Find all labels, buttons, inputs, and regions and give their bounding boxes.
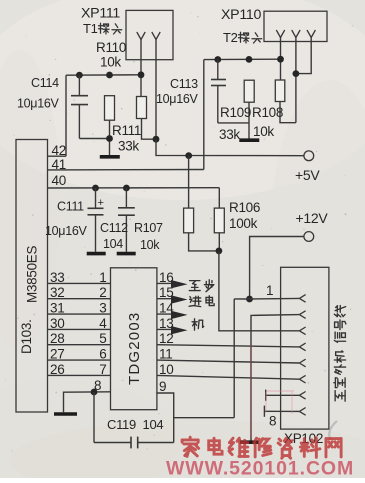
node T1 bus / C114 [76, 72, 83, 79]
wire R107 top to +5V [188, 156, 190, 209]
svg-text:6: 6 [99, 347, 106, 362]
wire pin 41 from IC [48, 169, 204, 171]
svg-text:C113: C113 [170, 77, 198, 91]
svg-text:27: 27 [50, 347, 64, 362]
connector XP110 box [264, 11, 327, 41]
wire divider junction down to XP102 pin3 [219, 251, 300, 331]
ground (C112) [117, 252, 136, 256]
svg-text:33k: 33k [219, 127, 240, 142]
svg-text:WWW.520101.COM: WWW.520101.COM [166, 458, 354, 479]
watermark pink marks [266, 390, 294, 414]
wire XP102 pin2 [251, 315, 299, 441]
node pin40 / C112 [123, 185, 130, 192]
wire R108 bottom to pin2 line [280, 102, 296, 123]
watermark text 家电维修资料网 [182, 437, 341, 458]
node +5V / R107 [185, 152, 192, 159]
svg-text:41: 41 [52, 157, 66, 172]
wire +12V to XP102 pin1 [250, 237, 304, 300]
svg-text:8: 8 [269, 414, 276, 429]
svg-text:9: 9 [159, 379, 166, 394]
wire IC pin 30 to TDG2003 pin 4 [48, 328, 111, 330]
wire TDG2003 pin 15 output [157, 298, 173, 300]
wire IC pin 33 to TDG2003 pin 1 [48, 282, 111, 284]
connector XP102 pin 4 fork [299, 343, 305, 351]
arrow to stepper motor (pin 13) [171, 326, 188, 334]
tick XP102 pin8 [263, 406, 265, 417]
svg-text:R106: R106 [229, 200, 260, 215]
wire TDG2003 pin 13 output [157, 328, 173, 330]
svg-text:5: 5 [99, 331, 106, 346]
wire TDG2003 pin 9 down [157, 393, 174, 443]
svg-text:C114: C114 [31, 76, 59, 90]
wire R107 bottom to junction [189, 233, 219, 251]
svg-text:11: 11 [159, 347, 172, 362]
ground (TDG2003 pin 8) [54, 412, 77, 416]
svg-text:C111: C111 [57, 200, 84, 214]
svg-text:40: 40 [52, 173, 66, 188]
wire T1 bus corner down to pin 42 [65, 75, 67, 156]
wire XP102 pin8 stub [264, 410, 299, 412]
connector XP102 pin 3 fork [299, 327, 305, 335]
svg-text:100k: 100k [229, 216, 258, 231]
svg-text:T1: T1 [83, 21, 98, 36]
IC TDG2003 box [111, 268, 157, 410]
wire XP111 pin2 down to +5V corner [155, 40, 157, 140]
svg-text:104: 104 [103, 237, 123, 251]
node T2 bus / R109 [246, 56, 253, 63]
resistor R110 [137, 97, 147, 119]
wire +5V rail [156, 139, 304, 156]
svg-text:42: 42 [52, 143, 66, 158]
arrow to stepper motor (pin 16) [171, 280, 188, 288]
node T1 bus / R111 [106, 72, 113, 79]
wire XP111 pin1 down to R110 top [140, 40, 142, 98]
svg-text:4: 4 [99, 316, 107, 331]
svg-text:2: 2 [99, 285, 106, 300]
node R111 bottom / C114 [106, 135, 113, 142]
tick XP102 pin7 [265, 390, 267, 401]
wire TDG2003 pin 14 output [157, 313, 173, 315]
svg-text:10k: 10k [100, 55, 121, 70]
svg-text:+: + [98, 197, 104, 209]
arrow to stepper motor (pin 14) [171, 311, 188, 319]
node T2 bus / C113 [214, 56, 221, 63]
wire pin 40 from IC to R106 [48, 187, 220, 189]
op-amp/MCU IC D103 M3850ES box [16, 140, 48, 413]
svg-text:R107: R107 [134, 221, 163, 235]
wire R106 bottom [218, 233, 220, 251]
node T1 bus / R110 pin1 [138, 71, 145, 78]
svg-text:3: 3 [99, 301, 106, 316]
connector XP111 pin 1 fork [137, 32, 145, 40]
capacitor C111 (electrolytic) [88, 188, 104, 252]
svg-text:10μ16V: 10μ16V [156, 92, 199, 106]
svg-text:30: 30 [50, 316, 64, 331]
resistor R111 [105, 96, 115, 121]
wire R111 bottom to ground [109, 120, 111, 155]
resistor R107 [184, 208, 194, 233]
connector XP102 pin 6 fork [299, 375, 305, 383]
svg-text:28: 28 [50, 331, 64, 346]
wire TDG2003 pin 12 to XP102 pin 4 [157, 345, 300, 347]
svg-text:32: 32 [50, 285, 64, 300]
wire IC pin 27 to TDG2003 pin 6 [48, 359, 111, 361]
wire R106 top to pin40 [218, 188, 220, 208]
wire IC pin 26 to TDG2003 pin 7 [48, 374, 111, 376]
wire XP110 pin3 L to pin2 [296, 38, 311, 74]
wire XP102 pin1 [234, 297, 299, 300]
svg-text:10μ16V: 10μ16V [45, 224, 88, 238]
node R106/R107 bottoms [216, 248, 223, 255]
svg-text:33: 33 [50, 270, 64, 285]
capacitor C112 [118, 188, 135, 252]
wire TDG2003 pin 8 to ground [64, 392, 111, 413]
connector XP111 box [126, 10, 173, 59]
connector XP102 pin 7 fork [299, 392, 305, 400]
resistor R106 [214, 208, 224, 233]
wire T2 bus [204, 58, 281, 60]
svg-text:31: 31 [50, 301, 64, 316]
connector XP102 box [281, 267, 329, 429]
label to outdoor unit signal line (至室外机 信号线, rotated) [334, 306, 346, 402]
connector XP110 pin 3 fork [307, 30, 315, 38]
svg-text:R111: R111 [112, 123, 141, 138]
wire TDG2003 pin 16 output [157, 282, 173, 284]
svg-text:D103.: D103. [19, 319, 34, 354]
connector XP110 pin 2 fork [292, 30, 300, 38]
connector XP102 pin 5 fork [299, 359, 305, 367]
label to stepper motor line2 (进电) [189, 296, 214, 307]
svg-text:R110: R110 [96, 40, 126, 55]
wire XP102 pin7 stub [266, 394, 300, 396]
wire XP110 pin1 down to R108 [280, 38, 282, 81]
wire R109 bottom to ground [248, 102, 250, 138]
ground (C111) [87, 252, 106, 256]
svg-text:10: 10 [159, 362, 173, 377]
connector XP102 pin 8 fork [299, 408, 305, 416]
label T1 probe (T1探头) [83, 21, 122, 36]
terminal +5V [304, 151, 314, 161]
ground (T2 divider) [239, 138, 259, 142]
wire IC pin 32 to TDG2003 pin 2 [48, 298, 111, 300]
arrow to stepper motor (pin 15) [171, 295, 188, 303]
capacitor C119 [94, 437, 174, 449]
svg-text:TDG2003: TDG2003 [126, 312, 143, 385]
svg-text:R108: R108 [252, 105, 283, 120]
svg-text:+5V: +5V [295, 167, 320, 183]
resistor R109 [244, 80, 254, 102]
label T2 probe (T2探头) [223, 30, 262, 45]
wire +12V net left branch down [233, 299, 235, 418]
svg-text:T2: T2 [223, 30, 238, 45]
connector XP111 pin 2 fork [152, 32, 160, 40]
ground (T1 divider) [100, 155, 120, 159]
wire R110 bottom to XP111 pin2 [142, 119, 157, 140]
wire C114 bottom to R111 bottom [79, 138, 109, 140]
wire T2 bus corner down to pin 41 line [203, 60, 205, 170]
wire pin 42 stub from IC [48, 155, 67, 157]
connector XP110 pin 1 fork [276, 30, 284, 38]
stray pen mark [329, 421, 337, 440]
wire IC pin 28 to TDG2003 pin 5 [48, 344, 111, 346]
wire XP110 pin2 down [295, 38, 297, 123]
node +12V / XP102 pin1 [246, 296, 253, 303]
svg-text:33k: 33k [118, 139, 139, 154]
connector XP102 pin 1 fork [299, 295, 305, 303]
capacitor C114 [71, 75, 88, 138]
svg-text:1: 1 [99, 270, 106, 285]
svg-text:1: 1 [266, 283, 273, 298]
node T2 bus / XP110 pin1 [277, 56, 284, 63]
svg-text:XP110: XP110 [221, 7, 261, 23]
wire IC pin 31 to TDG2003 pin 3 [48, 313, 111, 315]
svg-text:C112: C112 [100, 221, 128, 235]
svg-text:+12V: +12V [296, 210, 329, 226]
svg-text:M3850ES: M3850ES [25, 246, 40, 303]
wire C113 bottom to R109 bottom [218, 122, 249, 124]
svg-text:7: 7 [99, 362, 106, 377]
node pin8 / C119 [91, 389, 98, 396]
wire pin9 branch to +12V net [174, 417, 235, 419]
wire TDG2003 pin 10 to XP102 pin 6 [157, 375, 300, 379]
svg-text:10μ16V: 10μ16V [17, 97, 60, 111]
watermark red line [250, 345, 252, 438]
wire TDG2003 pin 11 to XP102 pin 5 [157, 360, 300, 363]
capacitor C113 [211, 60, 226, 123]
node R110 bottom / pin2 / +5V [153, 136, 160, 143]
terminal +12V [304, 232, 314, 242]
svg-text:R109: R109 [220, 105, 251, 120]
svg-text:10k: 10k [140, 238, 160, 252]
ground (XP102 pin2) [240, 440, 259, 444]
node pin40 / C111 [92, 185, 99, 192]
wire T1 bus [66, 74, 141, 76]
wire pin8 down to C119 [93, 392, 95, 443]
node pins 2-3 [293, 70, 300, 77]
label to stepper motor line1 (至步) [189, 280, 213, 292]
connector XP102 pin 2 fork [299, 311, 305, 319]
svg-text:XP111: XP111 [81, 6, 120, 22]
svg-text:26: 26 [50, 362, 64, 377]
svg-text:10k: 10k [253, 124, 274, 139]
svg-text:C119 104: C119 104 [107, 417, 163, 432]
resistor R108 [275, 80, 285, 102]
label to stepper motor line3 (机) [192, 319, 204, 330]
